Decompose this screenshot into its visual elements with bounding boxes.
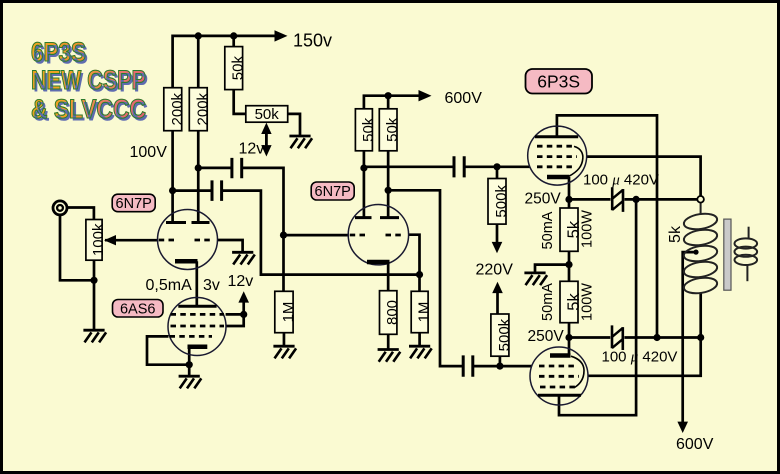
ground (50k pot) xyxy=(289,136,312,148)
svg-text:1M: 1M xyxy=(280,302,297,323)
transformer T1 primary lead xyxy=(700,203,702,215)
svg-text:0,5mA: 0,5mA xyxy=(146,277,193,294)
wire 220V up arrow stem to R12 xyxy=(496,292,499,314)
svg-text:50k: 50k xyxy=(230,56,247,81)
tube V6 cathode xyxy=(550,353,571,358)
ground (R9 bottom) xyxy=(378,350,401,362)
wire R11 bottom lead xyxy=(496,224,499,242)
svg-text:6N7P: 6N7P xyxy=(315,184,351,200)
capacitor C4 xyxy=(463,355,473,376)
arrow 600V bottom xyxy=(677,422,688,433)
electrolytic capacitor C5 100u 420V xyxy=(612,187,623,212)
node V4 plate right xyxy=(385,187,392,194)
transformer T1 terminal xyxy=(697,196,704,203)
wire node B up to transformer bottom xyxy=(699,293,702,338)
resistor R7 50k xyxy=(379,109,397,151)
transformer T1 primary winding xyxy=(683,212,719,296)
wire C2 output down and right to node G2R xyxy=(222,191,420,275)
pink label 6N7P first xyxy=(112,194,155,212)
wire node down through R13 R14 xyxy=(568,199,571,337)
potentiometer R4 50k xyxy=(246,106,288,123)
ground (V2 cathode) xyxy=(179,376,202,388)
resistor R5 100k xyxy=(86,220,102,261)
node jack sleeve xyxy=(90,277,97,284)
wire C4 output to V6 grid xyxy=(473,365,532,368)
wire mid 5k ground branch xyxy=(535,265,569,273)
tube V5 beam plate link xyxy=(569,146,583,176)
svg-text:200k: 200k xyxy=(194,92,211,125)
svg-text:150v: 150v xyxy=(293,31,332,51)
tube V4 grid xyxy=(350,234,404,237)
ground (R10 bottom) xyxy=(409,346,432,358)
tube V1 6N7P envelope xyxy=(158,210,218,270)
input jack J1 xyxy=(53,201,67,215)
tube V2 plate xyxy=(178,305,216,308)
svg-text:3v: 3v xyxy=(203,277,220,294)
svg-text:800: 800 xyxy=(384,300,401,325)
tube V6 plate xyxy=(538,394,581,397)
resistor R14 5k 100W xyxy=(560,281,578,322)
resistor R1 200k xyxy=(164,88,182,131)
node V2 grid xyxy=(240,311,247,318)
tube V6 grids xyxy=(539,366,579,387)
wire V4 grid node down to R8 xyxy=(282,235,285,291)
capacitor C3 xyxy=(454,156,464,177)
wire V5 screen to transformer top xyxy=(587,157,701,196)
resistor R6 50k xyxy=(355,109,372,151)
wire C3 output to V5 grid xyxy=(464,165,530,168)
wire V5 plate up right and down to node A xyxy=(557,115,657,337)
node hatch right upper xyxy=(633,196,640,203)
node V4 grid left xyxy=(280,232,287,239)
svg-text:5k: 5k xyxy=(667,225,684,243)
transformer T1 secondary winding xyxy=(735,227,758,282)
node R3 top xyxy=(230,32,237,39)
svg-text:200k: 200k xyxy=(169,92,186,125)
electrolytic capacitor C6 100u 420V xyxy=(612,325,623,350)
wire 250V node through hatch cap to transformer top xyxy=(569,198,701,201)
wire input jack to R5 top xyxy=(67,208,94,220)
svg-text:600V: 600V xyxy=(676,436,714,453)
wire V6 cathode lead xyxy=(568,338,571,356)
node R2 top xyxy=(195,32,202,39)
arrow 12v at V2 xyxy=(238,291,249,302)
tube V1 cathode xyxy=(175,259,198,264)
svg-text:100k: 100k xyxy=(90,223,107,256)
svg-text:50k: 50k xyxy=(384,117,401,142)
wire R7 bottom to V4 right plate xyxy=(387,151,390,218)
arrow into R5 (wiper) xyxy=(104,235,116,245)
node R12 bottom xyxy=(496,363,503,370)
capacitor C1 xyxy=(232,158,242,178)
wire jack sleeve loop down to node xyxy=(60,215,94,280)
node V6 cathode 250V xyxy=(565,334,572,341)
svg-text:50mA: 50mA xyxy=(540,211,556,249)
svg-text:500k: 500k xyxy=(496,318,513,351)
wire R9 bottom to ground xyxy=(387,334,390,349)
arrow 600V top xyxy=(419,90,432,101)
wire R11 top lead xyxy=(496,167,499,179)
resistor R10 1M xyxy=(411,291,428,332)
wire V2 cathode to ground xyxy=(188,347,191,376)
wire 150v top rail xyxy=(173,36,278,88)
resistor R12 500k xyxy=(491,314,509,356)
tube V6 6P3S lower envelope xyxy=(530,347,588,405)
tube V5 grids xyxy=(537,146,577,167)
svg-text:6AS6: 6AS6 xyxy=(120,301,155,317)
wire lower 250V node through hatch to node B xyxy=(569,336,701,339)
resistor R13 5k 100W xyxy=(560,208,578,251)
wire R3 bottom to pot R4 xyxy=(234,90,246,114)
tube V4 6N7P envelope xyxy=(348,205,408,265)
resistor R9 800 xyxy=(380,291,397,335)
node V2 cathode xyxy=(186,361,193,368)
tube V2 cathode xyxy=(188,345,208,350)
pink label 6N7P second xyxy=(311,182,354,200)
svg-text:250V: 250V xyxy=(528,328,565,345)
tube V2 grids xyxy=(170,314,225,336)
ground (V1 grid right) xyxy=(232,252,255,264)
svg-text:12v: 12v xyxy=(239,141,265,158)
node V5 cathode 250V xyxy=(565,196,572,203)
wire R8 bottom to ground xyxy=(283,333,286,346)
wire R6 bottom to V4 left plate xyxy=(363,151,366,218)
node V4 grid right xyxy=(416,271,423,278)
svg-text:250V: 250V xyxy=(525,191,562,208)
tube V4 plates xyxy=(355,216,399,219)
wire V4 grid left from C1 node xyxy=(284,234,349,237)
svg-text:50k: 50k xyxy=(360,117,377,142)
arrow 220V down xyxy=(492,242,503,253)
node C2 tap xyxy=(169,187,176,194)
wire V1 cathode to V2 plate xyxy=(195,261,198,306)
node 600V rail xyxy=(385,92,392,99)
svg-text:100V: 100V xyxy=(130,144,168,161)
tube V5 6P3S upper envelope xyxy=(528,126,587,185)
wire R7 top lead xyxy=(387,96,390,109)
pink label 6P3S xyxy=(526,69,593,94)
svg-text:220V: 220V xyxy=(476,262,514,279)
wire R2 bottom lead to V1 right plate xyxy=(197,131,200,223)
wire 12v arrow stem xyxy=(242,302,245,315)
svg-text:100 μ 420V: 100 μ 420V xyxy=(602,349,678,366)
wire node 388 down-right to C4 xyxy=(388,190,463,366)
wire C1 input from node at 198 xyxy=(198,167,232,170)
wire V5 cathode lead xyxy=(568,177,571,199)
capacitor C2 xyxy=(212,180,222,201)
node 5k mid xyxy=(565,261,572,268)
wire V2 g3 loop to cathode node xyxy=(147,336,189,364)
wire V4 cathode to R9 xyxy=(387,262,390,291)
wire C1 output down to V3 grid node xyxy=(242,168,284,235)
wire V1 grid right to ground xyxy=(217,240,242,252)
wire 200k R2 top lead xyxy=(197,36,200,88)
wire 600V rail stage2 xyxy=(364,96,423,109)
wire 600V center tap feed xyxy=(683,252,697,424)
ground (5k chain mid) xyxy=(524,273,547,285)
node B xyxy=(697,334,704,341)
svg-text:6N7P: 6N7P xyxy=(116,196,152,212)
wire V2 grid rows to 12v arrow node xyxy=(226,314,244,326)
wire V6 screen right and up to node B xyxy=(588,338,701,376)
arrow 150v xyxy=(275,30,288,41)
node dots xyxy=(90,32,704,369)
tube V5 plate xyxy=(535,135,578,138)
svg-text:50mA: 50mA xyxy=(540,283,556,321)
svg-text:1M: 1M xyxy=(416,302,433,323)
svg-text:500k: 500k xyxy=(493,185,510,218)
svg-text:600V: 600V xyxy=(445,90,483,107)
resistor R2 200k xyxy=(189,88,207,131)
svg-text:100 μ 420V: 100 μ 420V xyxy=(583,172,659,189)
svg-text:6P3S: 6P3S xyxy=(537,72,580,92)
ground (R5 bottom) xyxy=(83,330,106,342)
wire R5 bottom lead to ground xyxy=(93,260,96,330)
pink label 6AS6 xyxy=(113,300,164,318)
svg-text:50k: 50k xyxy=(255,106,280,123)
wire R12 bottom to C4 node xyxy=(499,356,502,366)
tube V2 6AS6 envelope xyxy=(168,298,226,356)
svg-text:100W: 100W xyxy=(579,283,595,321)
tube V1 plates xyxy=(166,221,210,224)
svg-text:100W: 100W xyxy=(579,210,595,248)
arrow 220V up xyxy=(492,282,503,293)
transformer T1 core xyxy=(724,219,731,290)
wire C3 input from node 363.9 xyxy=(364,165,454,168)
node R11 top xyxy=(493,163,500,170)
node C1 tap xyxy=(195,164,202,171)
resistor R8 1M xyxy=(275,291,293,332)
svg-text:12v: 12v xyxy=(228,273,254,290)
tube V6 beam plate link xyxy=(571,356,584,387)
node A xyxy=(653,334,660,341)
tube V5 cathode xyxy=(547,175,569,180)
wire V4 grid right down to R10 xyxy=(409,235,420,292)
node center tap xyxy=(693,250,698,255)
wire V6 plate down right up to upper hatch node xyxy=(559,199,636,415)
wire C2 input from node at 172.6 xyxy=(173,189,212,192)
resistor R3 50k xyxy=(225,47,243,90)
wire pot R4 right to ground xyxy=(288,114,300,136)
arrow 12v pot wiper double xyxy=(261,123,271,157)
resistor R11 500k xyxy=(488,179,506,225)
wire 50k R3 top lead xyxy=(232,36,235,47)
wire R1 bottom lead to V1 left plate xyxy=(171,131,174,223)
tube V4 cathode xyxy=(367,260,390,265)
wire V1 grid left with arrow to R5 xyxy=(105,239,158,242)
ground (R8 bottom) xyxy=(273,346,296,358)
tube V1 grid xyxy=(159,239,213,242)
wire R10 bottom to ground xyxy=(418,333,421,346)
title lettering xyxy=(31,38,175,123)
node V4 plate left xyxy=(360,164,367,171)
